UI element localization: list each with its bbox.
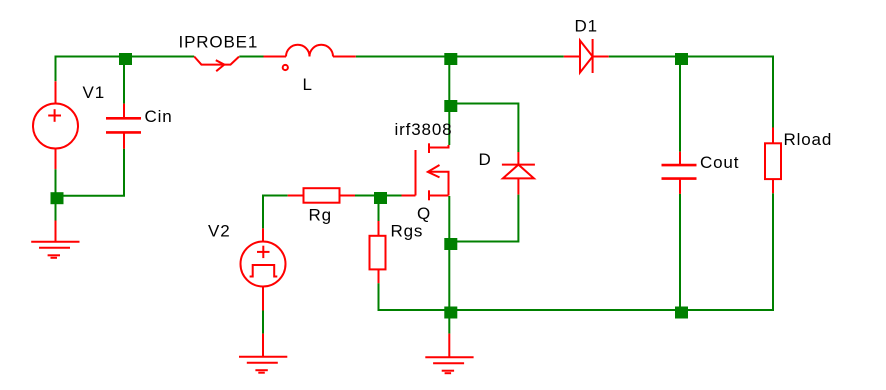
wire: drain bus node N5 to MOSFET drain	[448, 104, 450, 146]
wire: IPROBE1 right to inductor L left	[239, 56, 263, 58]
svg-text:D: D	[479, 150, 492, 169]
ground G2	[239, 357, 287, 373]
svg-text:IPROBE1: IPROBE1	[179, 33, 259, 52]
svg-text:Cin: Cin	[145, 107, 173, 126]
diode D1	[564, 39, 609, 73]
wire: MOSFET source to node N6	[448, 196, 450, 242]
wire: node N8 down to Rgs top	[378, 196, 380, 222]
wire: node N9 to Rload bottom corner	[680, 193, 773, 310]
wire: node N7 down stub	[448, 310, 450, 334]
wire: top rail node N1 to IPROBE1 left	[124, 56, 194, 58]
ground G3	[425, 357, 473, 373]
svg-text:Rload: Rload	[784, 130, 833, 149]
wire: Cout bottom to node N9	[679, 194, 681, 310]
svg-text:Cout: Cout	[700, 153, 739, 172]
svg-text:V1: V1	[83, 83, 106, 102]
current probe IPROBE1	[194, 57, 239, 72]
node N5 junction square	[444, 100, 457, 112]
wire: V1 bottom to ground node N4	[55, 169, 57, 220]
node N1 junction square	[119, 53, 132, 65]
wire: node N5 to diode D top corner	[449, 104, 518, 153]
wire: top rail node N3 to Rload corner	[680, 57, 773, 128]
node N2 junction square	[444, 53, 457, 65]
node N9 junction square	[675, 307, 688, 319]
wire: stub to ground G2	[262, 334, 264, 357]
capacitor Cin	[106, 104, 141, 149]
voltage source V2 (pulse)	[241, 228, 286, 310]
wire: Cin bottom to node N4	[56, 149, 125, 196]
node N7 junction square (bottom rail cross)	[444, 307, 457, 319]
wire: diode D1 right to node N3	[609, 56, 680, 58]
svg-text:D1: D1	[575, 17, 598, 36]
svg-text:Q: Q	[417, 204, 431, 223]
inductor L	[264, 45, 356, 70]
wire: Rg right to node N8	[355, 195, 379, 197]
resistor Rg	[288, 188, 355, 203]
wire: top rail from V1 corner to node N1	[56, 57, 125, 82]
node N8 junction square	[374, 192, 387, 204]
wire: diode D bottom to node N6	[449, 195, 518, 242]
wire: V2 top corner to Rg left	[263, 196, 288, 229]
svg-text:irf3808: irf3808	[395, 120, 453, 139]
voltage source V1	[33, 81, 78, 169]
wire: V2 bottom stub	[262, 311, 264, 334]
node N6 junction square	[444, 238, 457, 250]
node N3 junction square	[675, 53, 688, 65]
wire: node N8 to MOSFET gate	[379, 195, 402, 197]
wire: stub to ground G3	[448, 334, 450, 358]
wire: inductor L right to node N2	[356, 56, 450, 58]
wire: node N4 stub to ground G1	[55, 221, 57, 242]
wire: bottom rail node N7 to node N9	[449, 309, 680, 311]
resistor Rgs	[370, 221, 386, 283]
wire: Rgs bottom to bottom rail	[379, 283, 450, 310]
node N4 junction square	[51, 192, 64, 204]
svg-text:Rg: Rg	[309, 206, 332, 225]
capacitor Cout	[662, 152, 697, 194]
wire: node N3 down to Cout top	[679, 57, 681, 152]
wire: node N2 down to node N5	[448, 57, 450, 104]
svg-text:Rgs: Rgs	[391, 221, 424, 240]
svg-text:V2: V2	[208, 221, 231, 240]
ground G1	[31, 242, 79, 258]
wire: node N2 to diode D1 left	[449, 56, 564, 58]
resistor Rload	[765, 128, 781, 194]
svg-text:L: L	[303, 75, 313, 94]
wire: node N1 down to Cin top	[123, 57, 125, 104]
transistor Q (MOSFET irf3808)	[401, 143, 449, 200]
diode D (freewheeling, pointing up)	[502, 152, 535, 195]
wire: node N6 down to node N7	[448, 242, 450, 311]
